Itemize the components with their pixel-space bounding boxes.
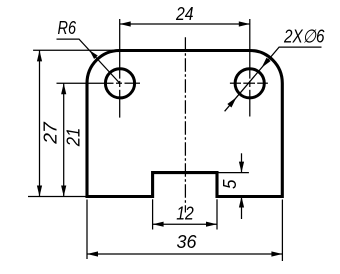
svg-text:12: 12: [176, 203, 194, 224]
svg-text:24: 24: [175, 3, 193, 24]
dim 27 arrow bottom: [37, 186, 42, 197]
centerline vertical left hole (also ext line of dim 24): [119, 19, 121, 118]
leader R6 arrow: [90, 50, 98, 59]
svg-text:36: 36: [177, 231, 198, 252]
dim 5 arrow lower (pointing up): [239, 197, 244, 208]
dim 21 line: [63, 83, 65, 196]
dim 24 arrow left: [120, 21, 131, 26]
dim 36 ext line left: [86, 200, 88, 260]
hole right: [235, 69, 264, 98]
centerline horizontal right hole: [230, 82, 268, 84]
dim 27 arrow top: [37, 50, 42, 61]
dim 12 arrow left: [153, 222, 164, 227]
centerline vertical middle: [184, 37, 186, 212]
dim 5 arrow upper (pointing down): [239, 162, 244, 173]
leader dia arrow lower: [227, 97, 236, 107]
dim 27 ext line top: [33, 49, 118, 51]
dim 5 ext line: [217, 172, 249, 174]
dim 27 line: [39, 50, 41, 196]
svg-text:27: 27: [40, 122, 61, 145]
dim 27/21 ext line bottom: [28, 196, 87, 198]
leader dia arrow upper: [262, 58, 271, 68]
dim 36 ext line right: [281, 200, 283, 262]
svg-text:R6: R6: [58, 17, 77, 38]
hole left: [105, 69, 134, 98]
svg-text:2X∅6: 2X∅6: [283, 26, 325, 47]
dim 24 line: [120, 23, 250, 25]
svg-text:21: 21: [63, 128, 84, 147]
dim 24 arrow right: [239, 21, 250, 26]
centerline vertical right hole (also ext line of dim 24): [249, 19, 251, 117]
dim 5 line upper: [241, 153, 243, 219]
dim 12 ext line left: [152, 199, 154, 229]
leader 2X diameter 6: [225, 47, 322, 111]
leader R6: [57, 39, 121, 83]
dim 12 arrow right: [206, 222, 217, 227]
dim 36 arrow left: [87, 251, 98, 256]
dim 21 arrow top: [61, 83, 66, 94]
centerline horizontal left hole (also ext line of dim 21): [57, 82, 141, 84]
dim 21 arrow bottom: [61, 186, 66, 197]
dim 12 ext line right: [216, 199, 218, 229]
svg-text:5: 5: [219, 179, 240, 189]
dim 12 line: [153, 223, 217, 225]
dim 36 line: [87, 253, 282, 255]
dim 36 arrow right: [271, 251, 282, 256]
part outline: [87, 51, 282, 197]
